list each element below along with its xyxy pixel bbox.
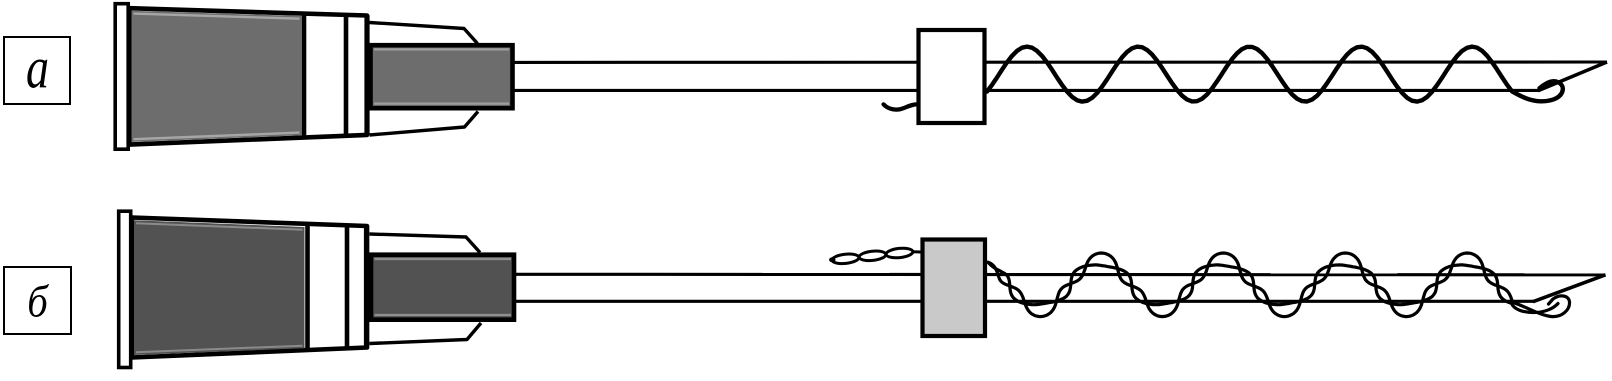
needle b: hub grey bottom highlight: [136, 346, 303, 353]
needle a: hub collar line 2: [344, 15, 349, 136]
needle b: twisted wire coil strand 2: [988, 253, 1570, 317]
needle b: hub grey top highlight: [136, 223, 303, 230]
needle b: cannula rect top highlight: [375, 258, 512, 260]
needle a: cannula base grey rect: [371, 45, 513, 108]
needle a: hub grey top highlight: [134, 14, 300, 19]
needle a: hub collar line 1: [302, 14, 307, 138]
needle a: hub end edge: [364, 15, 369, 135]
needle a: wire coil: [987, 47, 1563, 102]
needle b: cannula rect bottom highlight: [375, 314, 512, 316]
needle a: fixation block: [919, 30, 985, 123]
needle a: bottom wing: [370, 112, 479, 136]
needle b: hub end edge: [364, 226, 369, 348]
needle a: cannula rect bottom highlight: [374, 102, 509, 104]
label box a: [3, 36, 71, 106]
needle b: hub collar line 1: [305, 224, 310, 351]
needle b: shaft top line: [512, 273, 1606, 277]
needle a: hub grey bottom highlight: [134, 133, 300, 140]
needle a: tip bevel: [1538, 62, 1607, 91]
needle b: twisted wire coil strand 1: [988, 262, 1558, 312]
needle a: cannula rect top highlight: [374, 48, 509, 50]
label box b: [3, 266, 72, 335]
needle a: shaft bottom line: [512, 89, 1539, 92]
needle a: hub flange: [115, 4, 128, 150]
needle a: shaft top line: [512, 60, 1607, 64]
needle b: hub flange: [119, 211, 131, 367]
needle a: wire tail left of block: [884, 104, 918, 109]
needle b: cannula base grey rect: [371, 255, 514, 320]
needle b: top wing: [370, 234, 481, 253]
needle b: fixation block (grey): [923, 240, 986, 337]
needle b: hub body grey fill: [134, 220, 305, 355]
needle b: hub collar line 2: [345, 225, 350, 349]
needle a: hub body outline: [130, 8, 368, 144]
needle b: tip bevel: [1533, 275, 1606, 302]
needle b: hub body outline: [132, 218, 367, 358]
needle a: hub body grey fill: [132, 11, 302, 142]
needle b: bottom wing: [370, 323, 482, 344]
needle a: top wing: [370, 23, 478, 44]
needle b: twisted wire tail left of block: chain of 3 loops: [829, 247, 921, 265]
needle b: shaft bottom line: [512, 300, 1534, 303]
